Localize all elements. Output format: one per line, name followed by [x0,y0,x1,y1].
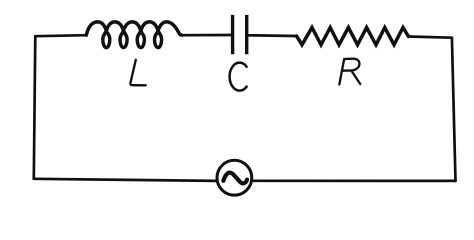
inductor L coil [86,22,182,48]
wire: resistor to top-right corner [409,37,452,38]
capacitor C plates [233,15,247,54]
wire: top-left segment [35,35,86,36]
AC source circle [217,160,252,195]
label C [230,63,247,91]
AC source sine wave [223,173,247,184]
wire: capacitor to resistor [248,34,296,37]
wire: left vertical [34,36,36,179]
wire: bottom-right segment [253,179,456,182]
resistor R zigzag [297,28,409,45]
label L [130,60,145,86]
wire: bottom-left segment [34,179,216,181]
label R [339,59,360,85]
wire: right vertical [452,38,456,181]
wire: inductor to capacitor [183,34,232,37]
